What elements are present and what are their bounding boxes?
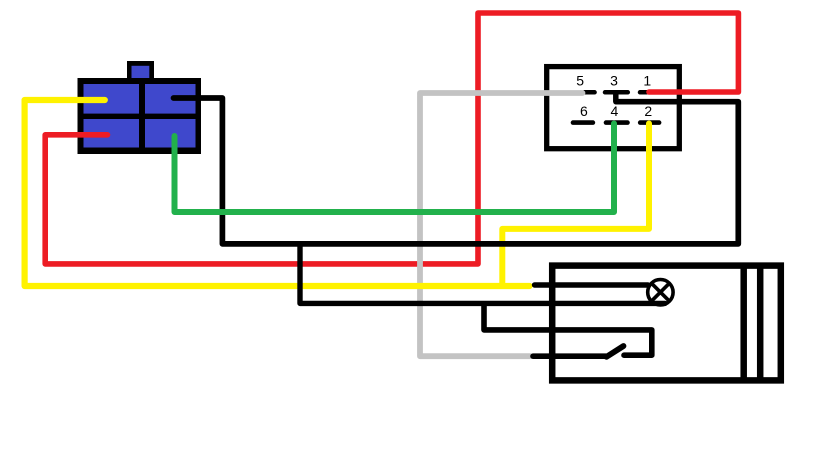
rear unit box (lamp + switch module) — [552, 266, 781, 381]
switch S1 blade — [607, 346, 624, 357]
pin 1 contact — [640, 90, 647, 95]
svg-text:4: 4 — [611, 103, 619, 119]
pin 4 contact — [606, 120, 628, 125]
rear unit stripe 2 — [757, 266, 764, 381]
lamp L1 — [648, 280, 673, 305]
switch connector J2 body — [547, 67, 680, 149]
pin 5 contact — [585, 90, 595, 95]
wire black: J1 upper-right pin to J2 pin 3 — [174, 98, 739, 244]
wire black: lamp lead from yellow junction — [535, 282, 649, 287]
svg-text:3: 3 — [610, 72, 618, 88]
wire green: J1 lower-right pin to J2 pin 4 — [175, 124, 615, 213]
wire yellow: J1 upper-left pin main run — [25, 100, 530, 286]
wire gray: J2 pin 5 to switch feed — [420, 93, 583, 356]
svg-text:5: 5 — [576, 72, 584, 88]
svg-text:1: 1 — [643, 72, 651, 88]
connector J1 (blue 4-way plug) tab — [127, 61, 154, 81]
wire red: J1 lower-left pin to J2 pin 1 — [45, 13, 738, 264]
wire black: pin 3 stem — [613, 92, 619, 102]
rear unit stripe 1 — [740, 266, 747, 381]
pin 6 contact — [573, 120, 593, 125]
wire black: switch left lead — [533, 353, 606, 359]
svg-text:2: 2 — [644, 103, 652, 119]
pin 2 contact — [640, 120, 659, 125]
wire black: branch from black bus to lamp feed — [300, 246, 665, 304]
wire yellow branch to J2 pin 2 — [502, 124, 649, 285]
pin 3 contact — [605, 90, 628, 95]
wire black: loop to switch fixed contact — [484, 305, 652, 356]
connector J1 body — [78, 78, 202, 154]
svg-text:6: 6 — [580, 103, 588, 119]
